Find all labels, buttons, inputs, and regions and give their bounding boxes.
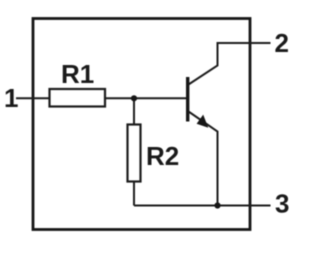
svg-text:R1: R1 — [61, 59, 94, 89]
svg-text:2: 2 — [275, 28, 289, 58]
resistor R1 — [50, 89, 106, 107]
node emitter junction dot — [214, 202, 220, 208]
device outline box — [33, 19, 250, 230]
svg-text:1: 1 — [4, 83, 18, 113]
wire collector to pin 2 — [189, 43, 271, 85]
wire R2 bottom to emitter rail — [133, 182, 135, 206]
wire emitter down to rail — [189, 112, 218, 206]
wire pin1 to R1 — [16, 97, 50, 99]
resistor R2 — [128, 125, 141, 182]
wire emitter rail to pin 3 — [134, 205, 271, 207]
transistor Q1 base bar — [186, 77, 189, 122]
wire node A to R2 top — [133, 98, 135, 124]
node A junction dot — [131, 95, 137, 101]
wire R1 to base (through node A) — [105, 97, 187, 99]
svg-text:R2: R2 — [146, 141, 179, 171]
transistor Q1 emitter arrow — [197, 115, 209, 128]
svg-text:3: 3 — [275, 189, 289, 219]
